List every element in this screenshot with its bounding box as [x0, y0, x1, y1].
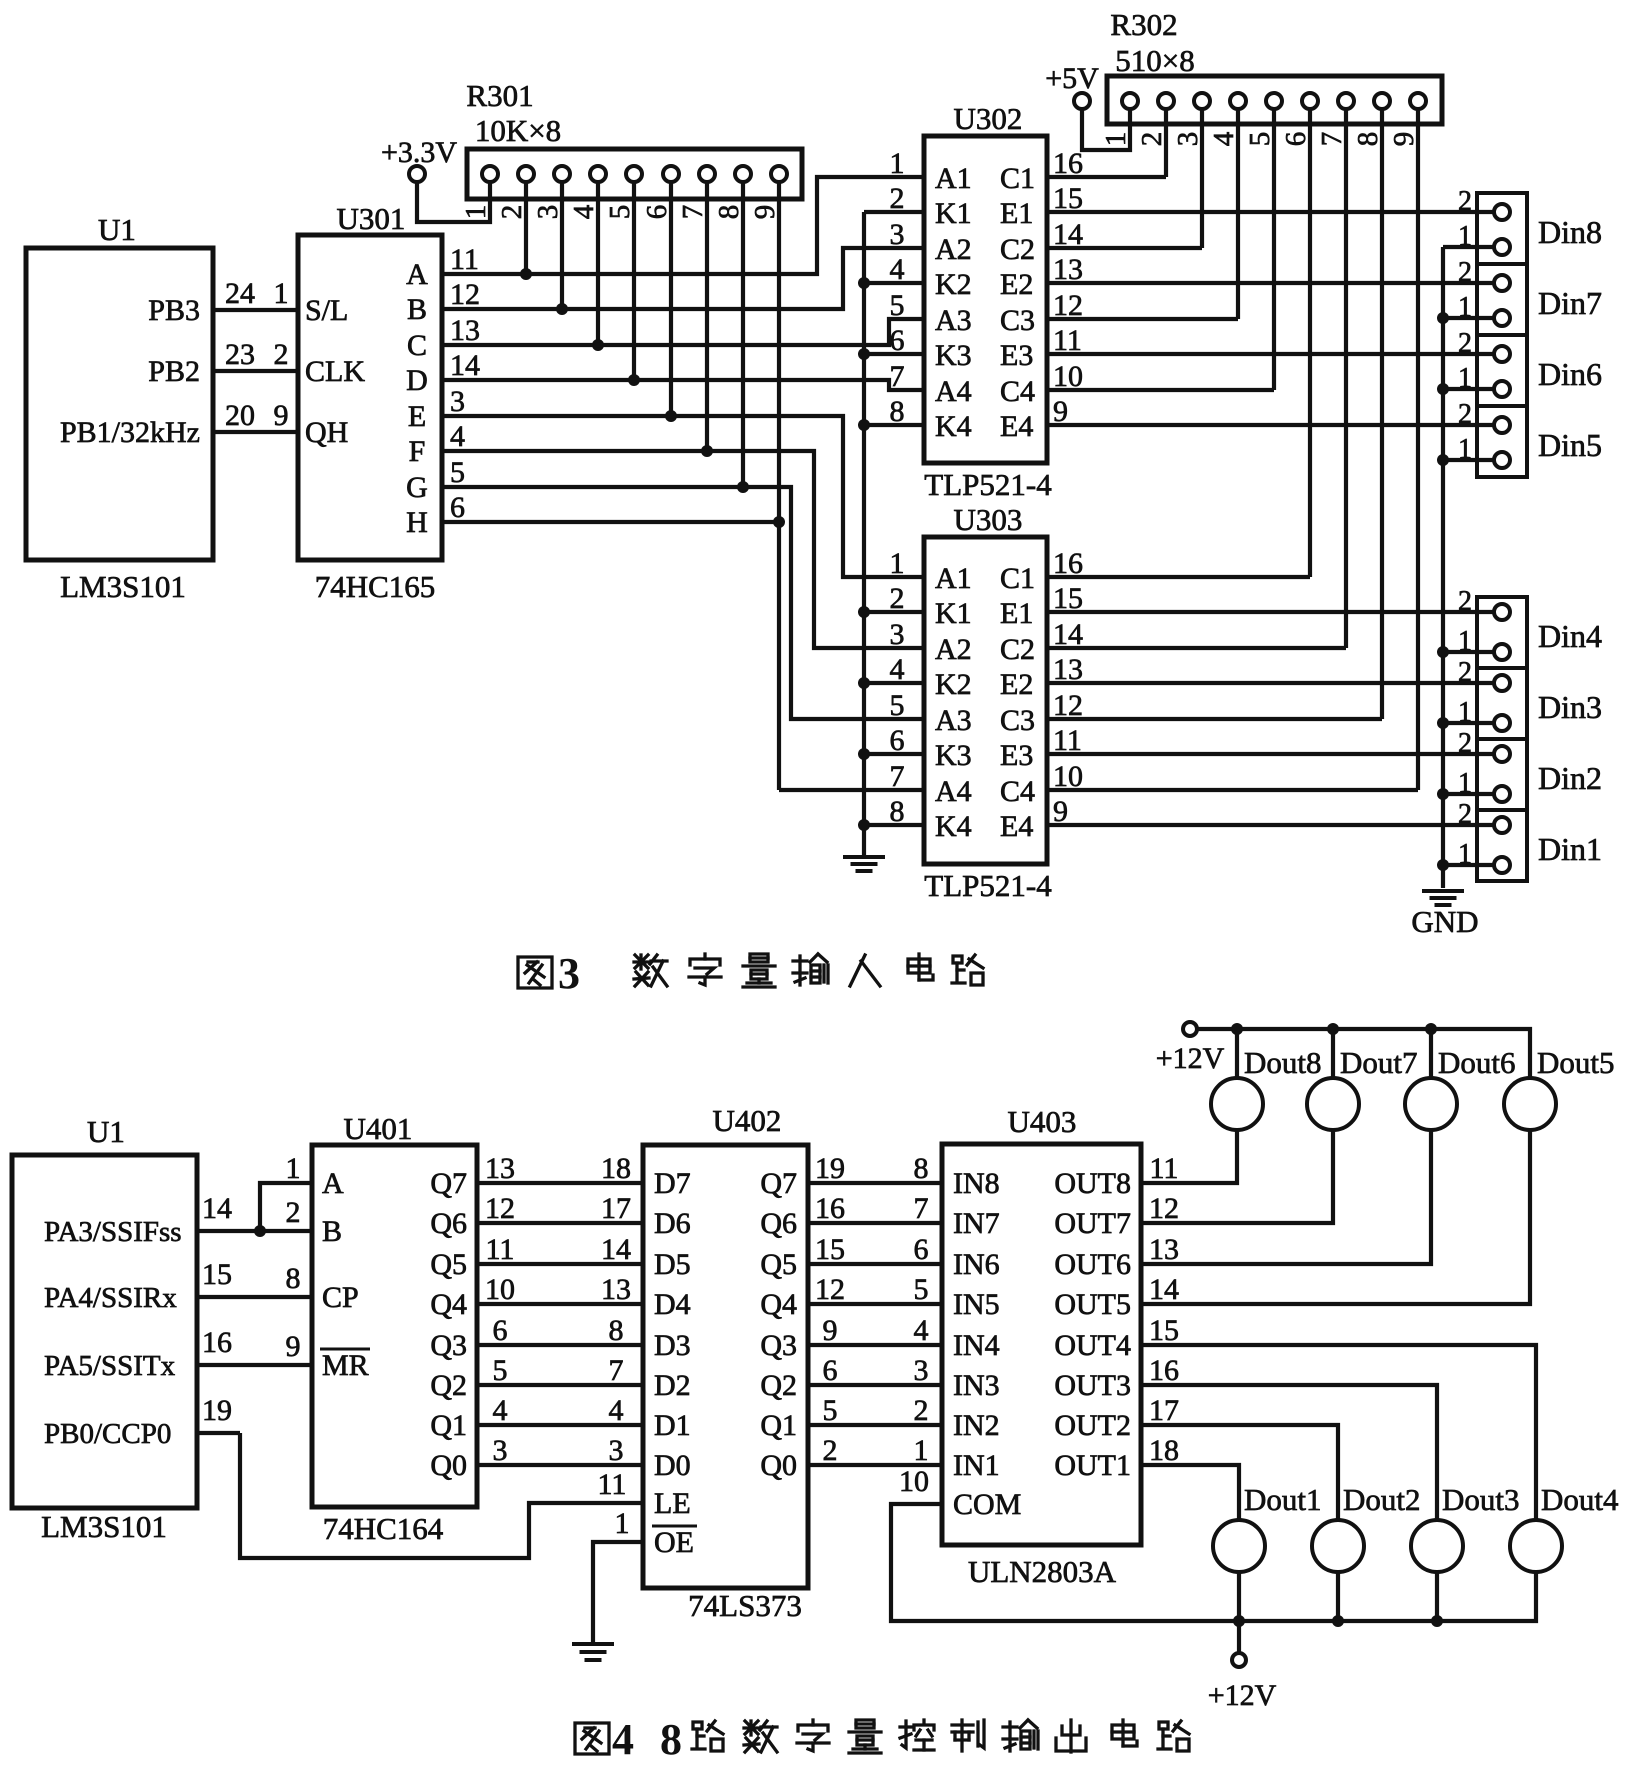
svg-text:2: 2 — [274, 338, 289, 371]
wire connector pin1 stub y723 — [1443, 721, 1494, 725]
svg-text:A2: A2 — [935, 233, 972, 266]
connector Din6 body — [1477, 335, 1527, 406]
wire U303 E row y754 to connector pin2 — [1047, 752, 1494, 756]
svg-text:K3: K3 — [935, 739, 972, 772]
R302 pin 1 circle — [1122, 93, 1138, 109]
svg-text:OUT4: OUT4 — [1054, 1329, 1131, 1362]
wire OUT4 to load — [1141, 1345, 1536, 1520]
svg-text:IN6: IN6 — [953, 1248, 1000, 1281]
IC U1 bottom (LM3S101) body — [12, 1155, 197, 1508]
junction bottom rail x1239 — [1233, 1615, 1245, 1627]
R301 pin 4 circle — [590, 166, 606, 182]
svg-text:12: 12 — [450, 278, 480, 311]
R302 pin 3 circle — [1194, 93, 1210, 109]
svg-text:2: 2 — [1136, 132, 1168, 147]
wire PA3 to B — [197, 1229, 312, 1233]
ground under U303 — [843, 857, 885, 871]
caption fig4: 图4 8路数字量控制输出电路 — [575, 1715, 1189, 1764]
svg-text:23: 23 — [225, 338, 255, 371]
svg-text:9: 9 — [286, 1330, 301, 1363]
wire connector pin1 stub y794 — [1443, 792, 1494, 796]
load Dout2 circle — [1312, 1520, 1364, 1572]
Din1 pin2 circle — [1494, 817, 1510, 833]
load Dout3 circle — [1411, 1520, 1463, 1572]
svg-text:Din8: Din8 — [1538, 214, 1602, 250]
junction GND bus y318 — [1437, 312, 1449, 324]
svg-text:D0: D0 — [654, 1449, 691, 1482]
svg-text:16: 16 — [202, 1326, 232, 1359]
svg-text:11: 11 — [1150, 1152, 1179, 1185]
svg-text:Din7: Din7 — [1538, 285, 1602, 321]
svg-text:LM3S101: LM3S101 — [41, 1509, 167, 1544]
svg-text:18: 18 — [1149, 1434, 1179, 1467]
wire connector pin1 stub y389 — [1443, 387, 1494, 391]
wire top rail drop x1431 — [1429, 1029, 1433, 1077]
svg-text:3: 3 — [493, 1434, 508, 1467]
wire OUT2 to load — [1141, 1425, 1338, 1520]
wire connector pin1 stub y865 — [1443, 863, 1494, 867]
junction bottom rail x1437 — [1431, 1615, 1443, 1627]
wire row D to U302 A4 — [442, 380, 924, 390]
svg-text:4: 4 — [914, 1314, 929, 1347]
svg-text:Q4: Q4 — [430, 1288, 467, 1321]
svg-text:8: 8 — [660, 1715, 682, 1764]
svg-text:PB2: PB2 — [148, 355, 200, 388]
svg-text:OUT6: OUT6 — [1054, 1248, 1131, 1281]
junction R301 pin 8 on row G — [737, 481, 749, 493]
svg-text:E4: E4 — [1000, 810, 1033, 843]
svg-text:Dout3: Dout3 — [1442, 1482, 1520, 1517]
svg-text:K1: K1 — [935, 597, 972, 630]
wire U402 Q0 to U403 — [808, 1463, 942, 1467]
junction top rail x1237 — [1231, 1023, 1243, 1035]
wire U303 C1 to R302 — [1047, 575, 1310, 579]
wire U302 C2 to R302 — [1047, 246, 1202, 250]
svg-text:IN7: IN7 — [953, 1207, 1000, 1240]
R301 pin 7 circle — [699, 166, 715, 182]
svg-text:U403: U403 — [1008, 1104, 1077, 1139]
svg-text:R301: R301 — [466, 78, 533, 113]
svg-text:1: 1 — [615, 1507, 630, 1540]
wire OE to ground — [593, 1542, 643, 1642]
svg-text:Din2: Din2 — [1538, 760, 1602, 796]
svg-text:GND: GND — [1411, 904, 1478, 939]
svg-text:Q6: Q6 — [760, 1207, 797, 1240]
R302 pin 7 circle — [1338, 93, 1354, 109]
wire U302 E row y425 to connector pin2 — [1047, 423, 1494, 427]
svg-text:24: 24 — [225, 277, 255, 310]
wire U401 Q3 to U402 — [477, 1343, 643, 1347]
svg-text:+3.3V: +3.3V — [381, 136, 457, 169]
svg-text:E4: E4 — [1000, 410, 1033, 443]
svg-text:74HC164: 74HC164 — [323, 1511, 444, 1546]
svg-text:15: 15 — [1149, 1314, 1179, 1347]
svg-text:4: 4 — [450, 420, 465, 453]
svg-text:15: 15 — [202, 1258, 232, 1291]
svg-text:1: 1 — [274, 277, 289, 310]
wire U402 Q1 to U403 — [808, 1423, 942, 1427]
svg-text:TLP521-4: TLP521-4 — [924, 467, 1052, 502]
wire U402 Q4 to U403 — [808, 1302, 942, 1306]
svg-text:K4: K4 — [935, 410, 972, 443]
svg-text:A1: A1 — [935, 162, 972, 195]
wire OUT7 to load — [1141, 1131, 1333, 1223]
svg-text:7: 7 — [677, 205, 709, 220]
svg-text:Q2: Q2 — [430, 1369, 467, 1402]
svg-text:6: 6 — [914, 1233, 929, 1266]
R301 pin 8 circle — [735, 166, 751, 182]
svg-text:U302: U302 — [954, 101, 1023, 136]
svg-text:4: 4 — [568, 204, 600, 219]
svg-text:4: 4 — [612, 1715, 634, 1764]
svg-text:Q2: Q2 — [760, 1369, 797, 1402]
svg-text:7: 7 — [609, 1354, 624, 1387]
svg-text:11: 11 — [486, 1233, 515, 1266]
svg-text:+12V: +12V — [1156, 1042, 1225, 1075]
svg-text:5: 5 — [450, 456, 465, 489]
svg-text:K1: K1 — [935, 197, 972, 230]
wire GND bus vertical — [1441, 247, 1445, 888]
svg-text:A2: A2 — [935, 633, 972, 666]
svg-text:5: 5 — [493, 1354, 508, 1387]
svg-text:Dout4: Dout4 — [1541, 1482, 1619, 1517]
wire connector pin1 stub y460 — [1443, 458, 1494, 462]
+12V top terminal — [1183, 1022, 1197, 1036]
svg-text:C3: C3 — [1000, 304, 1035, 337]
svg-text:A4: A4 — [935, 775, 972, 808]
wire U401 Q5 to U402 — [477, 1262, 643, 1266]
IC U1 (LM3S101) body — [26, 248, 213, 560]
svg-text:D2: D2 — [654, 1369, 691, 1402]
svg-text:OUT2: OUT2 — [1054, 1409, 1131, 1442]
wire R302 pin 9 drop — [1416, 109, 1420, 790]
resistor network R302 body — [1107, 76, 1442, 124]
wire COM to bottom rail — [891, 1504, 1536, 1621]
svg-text:D: D — [406, 364, 428, 397]
svg-text:6: 6 — [493, 1314, 508, 1347]
svg-text:2: 2 — [823, 1434, 838, 1467]
svg-text:Dout5: Dout5 — [1537, 1045, 1615, 1080]
svg-text:Din5: Din5 — [1538, 427, 1602, 463]
wire R301 pin 6 pull-up drop — [669, 182, 673, 416]
junction K bus y425 — [858, 419, 870, 431]
wire U302 C1 to R302 — [1047, 175, 1166, 179]
R301 pin 6 circle — [663, 166, 679, 182]
svg-text:6: 6 — [450, 491, 465, 524]
svg-text:ULN2803A: ULN2803A — [968, 1554, 1117, 1589]
wire U303 C3 to R302 — [1047, 717, 1382, 721]
svg-text:9: 9 — [749, 205, 781, 220]
svg-text:7: 7 — [914, 1192, 929, 1225]
svg-text:6: 6 — [823, 1354, 838, 1387]
connector Din4 body — [1477, 597, 1527, 668]
svg-text:3: 3 — [558, 949, 580, 998]
svg-text:Din4: Din4 — [1538, 618, 1602, 654]
svg-text:IN5: IN5 — [953, 1288, 1000, 1321]
Din7 pin1 circle — [1494, 310, 1510, 326]
svg-text:C2: C2 — [1000, 233, 1035, 266]
load Dout4 circle — [1510, 1520, 1562, 1572]
svg-text:8: 8 — [609, 1314, 624, 1347]
junction K bus y825 — [858, 819, 870, 831]
resistor network R301 body — [467, 149, 802, 199]
svg-text:1: 1 — [1100, 132, 1132, 147]
svg-text:CLK: CLK — [305, 355, 365, 388]
svg-text:17: 17 — [1149, 1394, 1179, 1427]
wire +3.3V to R301 pin1 — [417, 182, 490, 222]
svg-text:19: 19 — [202, 1394, 232, 1427]
wire R301 pin 8 pull-up drop — [741, 182, 745, 487]
svg-text:Din6: Din6 — [1538, 356, 1602, 392]
junction top rail x1333 — [1327, 1023, 1339, 1035]
wire R302 pin 5 drop — [1272, 109, 1276, 390]
U402 OE overline — [652, 1525, 697, 1528]
svg-text:D4: D4 — [654, 1288, 691, 1321]
svg-text:5: 5 — [914, 1273, 929, 1306]
svg-text:5: 5 — [1244, 132, 1276, 147]
wire OUT6 to load — [1141, 1131, 1431, 1264]
R302 pin 5 circle — [1266, 93, 1282, 109]
junction GND bus y865 — [1437, 859, 1449, 871]
wire K stub at y754 — [864, 752, 924, 756]
wire PB0 to LE — [240, 1433, 643, 1558]
wire U401 Q1 to U402 — [477, 1423, 643, 1427]
svg-text:20: 20 — [225, 399, 255, 432]
junction R301 pin 6 on row E — [665, 410, 677, 422]
wire OUT1 to load — [1141, 1465, 1239, 1520]
svg-text:17: 17 — [601, 1192, 631, 1225]
svg-text:8: 8 — [713, 205, 745, 220]
wire row C to U302 A3 — [442, 319, 924, 345]
wire row B to U302 A2 — [442, 248, 924, 309]
svg-text:A: A — [406, 258, 428, 291]
svg-text:12: 12 — [815, 1273, 845, 1306]
svg-text:U1: U1 — [98, 212, 136, 247]
wire R302 pin 3 drop — [1200, 109, 1204, 248]
svg-text:2: 2 — [914, 1394, 929, 1427]
svg-text:D6: D6 — [654, 1207, 691, 1240]
load Dout6 circle — [1405, 1078, 1457, 1130]
wire U402 Q5 to U403 — [808, 1262, 942, 1266]
svg-text:74LS373: 74LS373 — [688, 1588, 802, 1623]
wire A jog — [260, 1183, 312, 1231]
wire K stub at y612 — [864, 610, 924, 614]
R302 pin 8 circle — [1374, 93, 1390, 109]
R301 pin 1 circle — [482, 166, 498, 182]
svg-text:5: 5 — [604, 205, 636, 220]
svg-text:13: 13 — [485, 1152, 515, 1185]
svg-text:Dout6: Dout6 — [1438, 1045, 1516, 1080]
Din1 pin1 circle — [1494, 857, 1510, 873]
svg-text:9: 9 — [274, 399, 289, 432]
svg-text:OUT7: OUT7 — [1054, 1207, 1131, 1240]
svg-text:E: E — [408, 400, 426, 433]
wire PB2 to CLK — [213, 369, 298, 373]
svg-text:QH: QH — [305, 416, 348, 449]
svg-text:A1: A1 — [935, 562, 972, 595]
wire U302 C4 to R302 — [1047, 388, 1274, 392]
svg-text:IN2: IN2 — [953, 1409, 1000, 1442]
wire OUT5 to load — [1141, 1131, 1530, 1304]
load Dout1 circle — [1213, 1520, 1265, 1572]
caption fig3: 图3 数字量输入电路 — [518, 949, 983, 998]
wire R301 pin 7 pull-up drop — [705, 182, 709, 451]
svg-text:D5: D5 — [654, 1248, 691, 1281]
svg-text:14: 14 — [601, 1233, 631, 1266]
svg-text:C4: C4 — [1000, 775, 1035, 808]
wire R302 pin 7 drop — [1344, 109, 1348, 648]
svg-text:14: 14 — [202, 1192, 232, 1225]
svg-text:C3: C3 — [1000, 704, 1035, 737]
svg-text:Q6: Q6 — [430, 1207, 467, 1240]
svg-text:OUT3: OUT3 — [1054, 1369, 1131, 1402]
wire K stub at y283 — [864, 281, 924, 285]
wire R302 pin 8 drop — [1380, 109, 1384, 719]
svg-text:3: 3 — [609, 1434, 624, 1467]
junction K bus y683 — [858, 677, 870, 689]
IC U301 (74HC165) body — [298, 235, 442, 560]
svg-text:Q3: Q3 — [430, 1329, 467, 1362]
wire OUT3 to load — [1141, 1385, 1437, 1520]
Din2 pin1 circle — [1494, 786, 1510, 802]
svg-text:Q3: Q3 — [760, 1329, 797, 1362]
wire +12V bottom stem — [1237, 1621, 1241, 1652]
junction R301 pin 4 on row C — [592, 339, 604, 351]
svg-text:E3: E3 — [1000, 739, 1033, 772]
wire PA4 to CP — [197, 1295, 312, 1299]
svg-text:A3: A3 — [935, 304, 972, 337]
wire R301 pin 3 pull-up drop — [560, 182, 564, 309]
wire K bus vertical — [862, 212, 866, 856]
svg-text:E2: E2 — [1000, 668, 1033, 701]
wire R302 pin 4 drop — [1236, 109, 1240, 319]
+12V bottom terminal — [1232, 1653, 1246, 1667]
Din3 pin2 circle — [1494, 675, 1510, 691]
Din2 pin2 circle — [1494, 746, 1510, 762]
svg-text:Dout1: Dout1 — [1244, 1482, 1322, 1517]
wire K stub at y683 — [864, 681, 924, 685]
svg-text:LE: LE — [654, 1487, 691, 1520]
wire connector pin1 stub y652 — [1443, 650, 1494, 654]
svg-text:Q1: Q1 — [760, 1409, 797, 1442]
svg-text:Q7: Q7 — [760, 1167, 797, 1200]
svg-text:4: 4 — [493, 1394, 508, 1427]
wire U402 Q6 to U403 — [808, 1221, 942, 1225]
wire row F to U303 A2 — [442, 451, 924, 648]
svg-text:D1: D1 — [654, 1409, 691, 1442]
svg-text:74HC165: 74HC165 — [315, 569, 436, 604]
svg-text:R302: R302 — [1110, 7, 1177, 42]
wire U303 E row y612 to connector pin2 — [1047, 610, 1494, 614]
junction K bus y283 — [858, 277, 870, 289]
wire U401 Q4 to U402 — [477, 1302, 643, 1306]
svg-text:18: 18 — [601, 1152, 631, 1185]
svg-text:IN8: IN8 — [953, 1167, 1000, 1200]
svg-text:OUT8: OUT8 — [1054, 1167, 1131, 1200]
wire R301 pin 2 pull-up drop — [524, 182, 528, 274]
svg-text:13: 13 — [450, 314, 480, 347]
junction GND bus y389 — [1437, 383, 1449, 395]
svg-text:IN1: IN1 — [953, 1449, 1000, 1482]
connector Din5 body — [1477, 406, 1527, 477]
ground GND right — [1422, 891, 1464, 905]
svg-text:10: 10 — [899, 1465, 929, 1498]
svg-text:2: 2 — [496, 205, 528, 220]
junction R301 pin 7 on row F — [701, 445, 713, 457]
svg-text:C: C — [407, 329, 427, 362]
wire R301 pin 4 pull-up drop — [596, 182, 600, 345]
svg-text:14: 14 — [450, 349, 480, 382]
load Dout7 circle — [1307, 1078, 1359, 1130]
svg-text:19: 19 — [815, 1152, 845, 1185]
svg-text:14: 14 — [1149, 1273, 1179, 1306]
svg-text:PB3: PB3 — [148, 294, 200, 327]
wire OUT8 to load — [1141, 1131, 1237, 1183]
wire U303 E row y825 to connector pin2 — [1047, 823, 1494, 827]
svg-text:+12V: +12V — [1208, 1679, 1277, 1712]
wire U401 Q7 to U402 — [477, 1181, 643, 1185]
svg-text:12: 12 — [485, 1192, 515, 1225]
svg-text:U401: U401 — [344, 1111, 413, 1146]
svg-text:Dout8: Dout8 — [1244, 1045, 1322, 1080]
svg-text:B: B — [407, 293, 427, 326]
wire PA5 to MR — [197, 1363, 312, 1367]
junction GND bus y723 — [1437, 717, 1449, 729]
U401 MR overline — [320, 1348, 370, 1351]
svg-text:PA5/SSITx: PA5/SSITx — [44, 1350, 176, 1382]
R302 pin 2 circle — [1158, 93, 1174, 109]
svg-text:A3: A3 — [935, 704, 972, 737]
junction GND bus y652 — [1437, 646, 1449, 658]
wire load bottom drop x1239 — [1237, 1572, 1241, 1621]
junction GND bus y794 — [1437, 788, 1449, 800]
load Dout8 circle — [1211, 1078, 1263, 1130]
svg-text:Q4: Q4 — [760, 1288, 797, 1321]
svg-text:1: 1 — [914, 1434, 929, 1467]
R302 pin 6 circle — [1302, 93, 1318, 109]
svg-text:Din1: Din1 — [1538, 831, 1602, 867]
wire K stub at y212 — [864, 210, 924, 214]
svg-text:510×8: 510×8 — [1115, 43, 1194, 78]
svg-text:6: 6 — [1280, 132, 1312, 147]
wire row E to U303 A1 — [442, 416, 924, 577]
junction K bus y612 — [858, 606, 870, 618]
svg-text:A: A — [322, 1167, 344, 1200]
Din6 pin2 circle — [1494, 346, 1510, 362]
junction R301 pin 3 on row B — [556, 303, 568, 315]
wire top rail drop x1237 — [1235, 1029, 1239, 1077]
R301 pin 5 circle — [626, 166, 642, 182]
svg-text:MR: MR — [322, 1349, 369, 1382]
svg-text:10: 10 — [485, 1273, 515, 1306]
Din3 pin1 circle — [1494, 715, 1510, 731]
svg-text:C1: C1 — [1000, 562, 1035, 595]
svg-text:U1: U1 — [87, 1114, 125, 1149]
wire U402 Q3 to U403 — [808, 1343, 942, 1347]
svg-text:E1: E1 — [1000, 197, 1033, 230]
junction PA3/A — [254, 1225, 266, 1237]
Din8 pin2 circle — [1494, 204, 1510, 220]
svg-text:Q0: Q0 — [430, 1449, 467, 1482]
wire U401 Q0 to U402 — [477, 1463, 643, 1467]
svg-text:K2: K2 — [935, 268, 972, 301]
svg-text:PA4/SSIRx: PA4/SSIRx — [44, 1282, 177, 1314]
optocoupler U303 (TLP521-4) body — [924, 537, 1047, 864]
R301 pin 3 circle — [554, 166, 570, 182]
svg-text:D7: D7 — [654, 1167, 691, 1200]
svg-text:Q7: Q7 — [430, 1167, 467, 1200]
wire U302 E row y283 to connector pin2 — [1047, 281, 1494, 285]
